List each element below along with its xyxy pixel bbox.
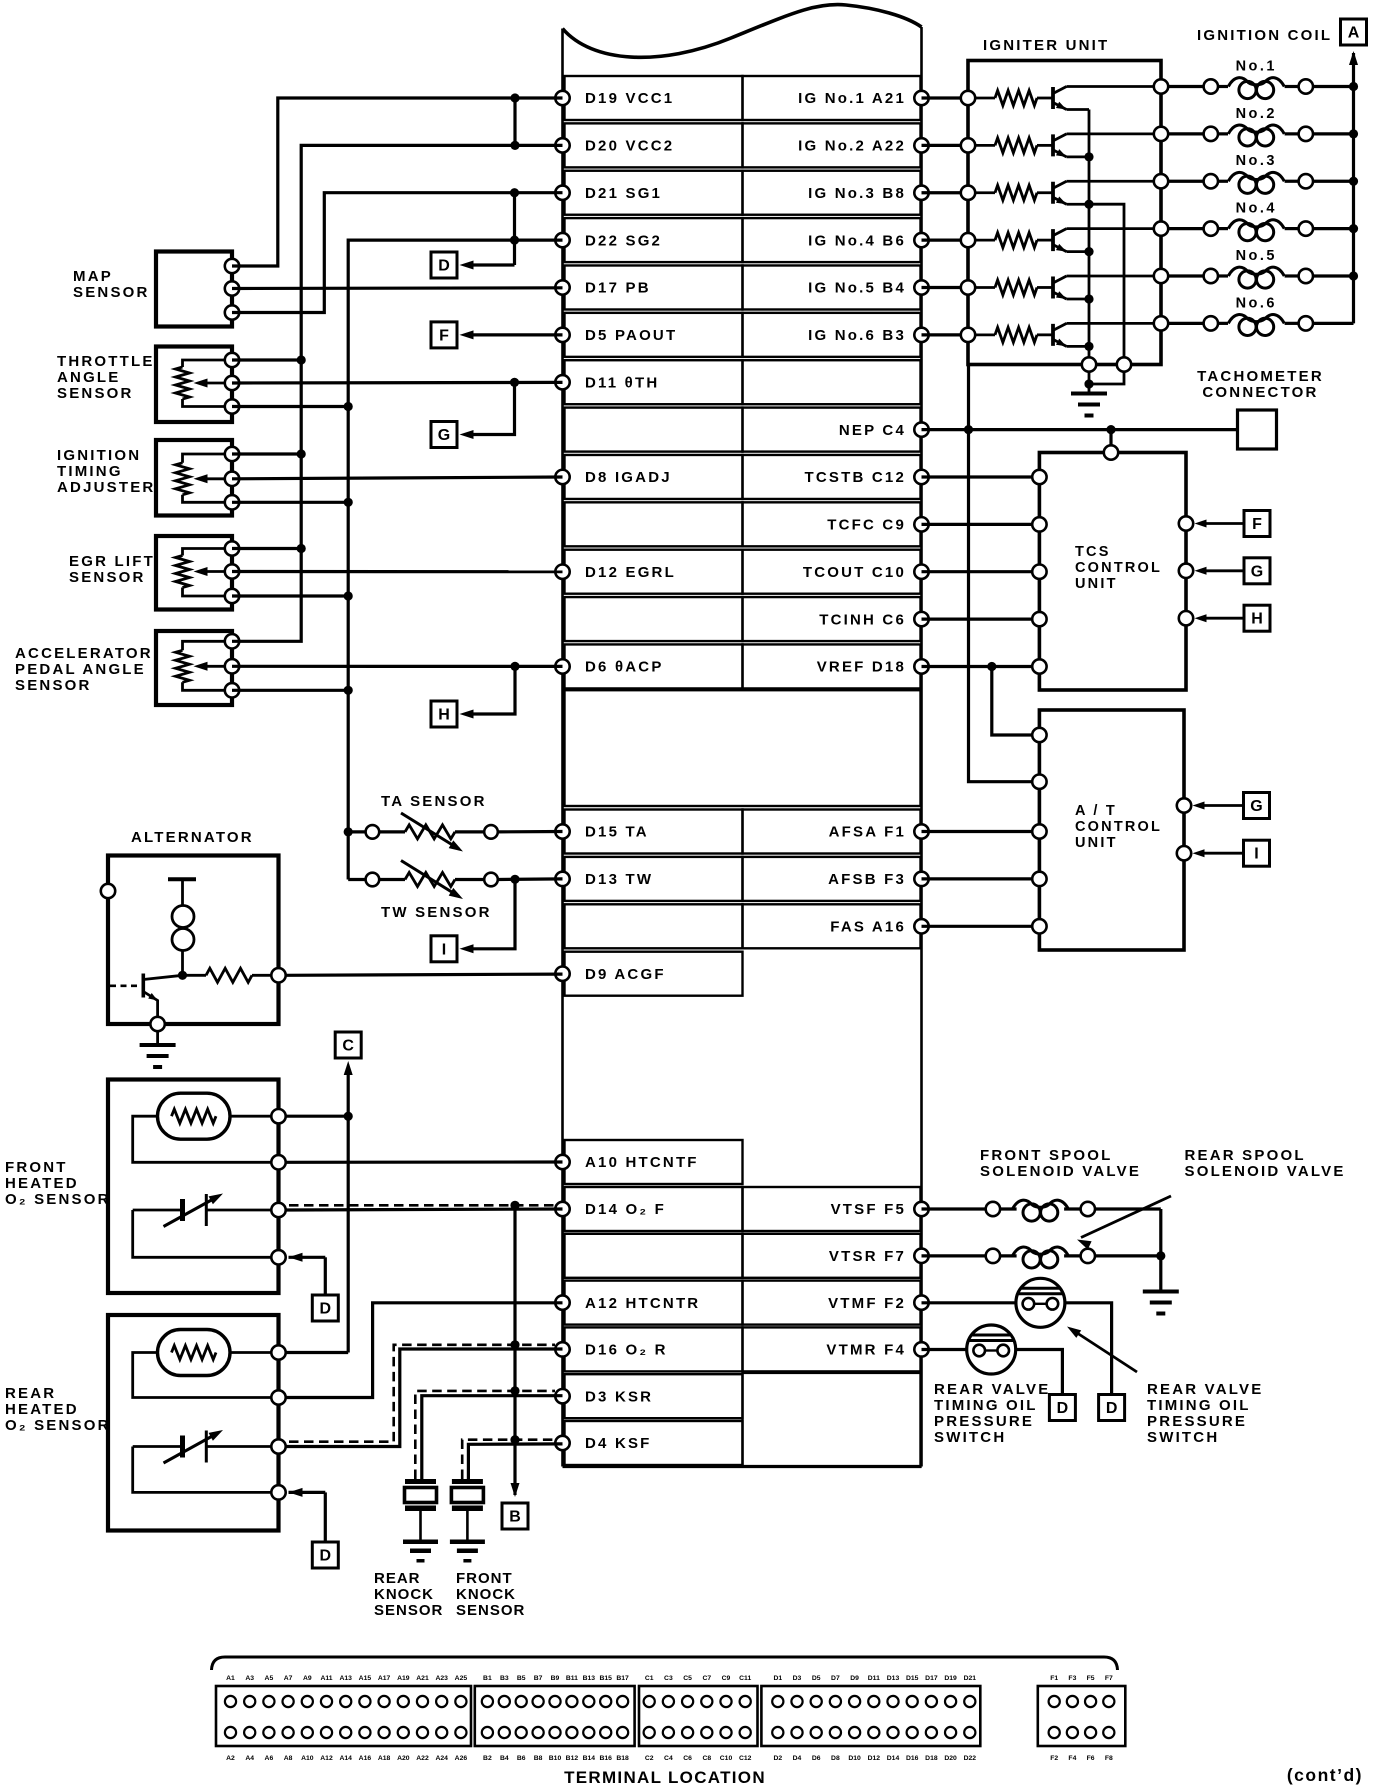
svg-text:TW SENSOR: TW SENSOR	[381, 904, 492, 921]
rear heated O2 sensor box (heater + cell)	[108, 1315, 279, 1531]
svg-text:A26: A26	[455, 1755, 468, 1762]
wire EGR pin1 stub	[232, 547, 301, 550]
terminal connector C	[639, 1686, 758, 1746]
svg-text:REAR: REAR	[374, 1570, 421, 1587]
wire TCINH C6 to TCS	[922, 617, 1033, 620]
svg-text:B8: B8	[534, 1755, 543, 1762]
svg-text:PRESSURE: PRESSURE	[1147, 1413, 1247, 1430]
svg-text:VTMR F4: VTMR F4	[826, 1342, 906, 1359]
wire A12 HTCNTR to rear heater pin2	[286, 1303, 563, 1398]
svg-text:F: F	[1252, 516, 1262, 533]
svg-text:A6: A6	[265, 1755, 274, 1762]
svg-text:No.2: No.2	[1236, 106, 1277, 122]
svg-text:ADJUSTER: ADJUSTER	[57, 479, 155, 496]
svg-text:REAR VALVE: REAR VALVE	[934, 1381, 1050, 1398]
igniter emitter bus	[1088, 110, 1091, 365]
svg-text:IGNITION: IGNITION	[57, 447, 141, 464]
igniter ground pins	[1082, 357, 1096, 371]
svg-text:D10: D10	[848, 1755, 861, 1762]
svg-text:IG No.3 B8: IG No.3 B8	[808, 185, 906, 202]
front spool solenoid valve coil (VTSF F5)	[922, 1207, 986, 1210]
svg-text:D21 SG1: D21 SG1	[585, 185, 662, 202]
ECU right blank cell bottom	[743, 1373, 921, 1467]
wire FAS A16 to A/T	[922, 925, 1033, 928]
svg-text:UNIT: UNIT	[1075, 576, 1118, 592]
svg-text:B10: B10	[549, 1755, 562, 1762]
alternator transistor Q	[142, 974, 146, 998]
svg-text:CONNECTOR: CONNECTOR	[1202, 384, 1318, 401]
svg-text:D17 PB: D17 PB	[585, 280, 651, 297]
svg-text:D4 KSF: D4 KSF	[585, 1435, 652, 1452]
svg-text:A19: A19	[397, 1675, 410, 1682]
svg-text:A / T: A / T	[1075, 803, 1117, 819]
svg-text:A21: A21	[416, 1675, 429, 1682]
svg-text:A10: A10	[301, 1755, 314, 1762]
igniter input pin 3	[961, 186, 975, 200]
svg-text:D21: D21	[964, 1675, 977, 1682]
svg-text:F4: F4	[1068, 1755, 1076, 1762]
svg-text:D: D	[1106, 1400, 1118, 1417]
svg-text:C1: C1	[645, 1675, 654, 1682]
svg-text:IG No.5 B4: IG No.5 B4	[808, 280, 906, 297]
wire D20 VCC2 bus to sensors	[232, 145, 563, 641]
svg-text:A18: A18	[378, 1755, 391, 1762]
svg-text:D9 ACGF: D9 ACGF	[585, 966, 666, 983]
svg-text:F5: F5	[1087, 1675, 1095, 1682]
svg-text:TCINH C6: TCINH C6	[819, 611, 906, 628]
connector D (rear O2)	[312, 1542, 338, 1568]
svg-text:PEDAL ANGLE: PEDAL ANGLE	[15, 661, 146, 678]
igniter collector wire 4	[1067, 227, 1162, 230]
svg-text:SENSOR: SENSOR	[69, 569, 146, 586]
svg-text:SOLENOID VALVE: SOLENOID VALVE	[1185, 1163, 1346, 1180]
wire NEP branch to TCS top pin	[1109, 430, 1112, 446]
svg-text:No.4: No.4	[1236, 201, 1277, 217]
TCS top pin	[1104, 445, 1118, 459]
svg-text:FAS A16: FAS A16	[830, 919, 906, 936]
igniter collector wire 5	[1067, 275, 1162, 278]
svg-text:ANGLE: ANGLE	[57, 369, 121, 386]
svg-text:H: H	[1251, 611, 1263, 628]
igniter collector wire 3	[1067, 180, 1162, 183]
TCS left pins	[1032, 470, 1046, 484]
connector I	[431, 936, 457, 962]
svg-text:D1: D1	[773, 1675, 782, 1682]
svg-text:D12 EGRL: D12 EGRL	[585, 564, 676, 581]
svg-text:B13: B13	[583, 1675, 596, 1682]
svg-text:F8: F8	[1105, 1755, 1113, 1762]
wire front O2 signal to D14 (shielded)	[286, 1209, 563, 1210]
ground (alternator)	[140, 1043, 176, 1047]
A/T left pins	[1032, 728, 1046, 742]
annotation arrow rear spool valve	[1081, 1196, 1171, 1238]
wire EGR wiper to D12 EGRL	[232, 570, 563, 573]
alternator resistor R	[178, 971, 187, 980]
svg-text:B9: B9	[551, 1675, 560, 1682]
svg-text:D6: D6	[812, 1755, 821, 1762]
svg-text:C12: C12	[739, 1755, 752, 1762]
ECU pin cell grid - top group	[565, 76, 743, 120]
svg-text:IG No.2 A22: IG No.2 A22	[798, 138, 906, 155]
alternator box	[108, 856, 279, 1025]
svg-text:D20: D20	[944, 1755, 957, 1762]
ignition coil No.2	[1168, 132, 1204, 135]
throttle angle sensor (potentiometer)	[156, 347, 232, 423]
TCS right pins to F G H	[1179, 516, 1193, 530]
svg-text:SENSOR: SENSOR	[374, 1602, 443, 1619]
ECU pin cell grid - bottom group	[565, 1140, 743, 1184]
svg-text:B5: B5	[517, 1675, 526, 1682]
connector H (TCS)	[1244, 605, 1270, 631]
svg-text:D19 VCC1: D19 VCC1	[585, 90, 674, 107]
svg-text:A13: A13	[339, 1675, 352, 1682]
svg-text:No.1: No.1	[1236, 59, 1277, 75]
svg-text:D11 θTH: D11 θTH	[585, 374, 659, 391]
connector D (switch 1)	[1099, 1395, 1125, 1421]
svg-text:D13: D13	[887, 1675, 900, 1682]
ECU pin cell grid - middle group	[565, 810, 743, 854]
igniter resistor R3	[975, 191, 995, 194]
svg-text:TACHOMETER: TACHOMETER	[1197, 368, 1324, 385]
svg-text:D6 θACP: D6 θACP	[585, 659, 664, 676]
svg-text:D19: D19	[944, 1675, 957, 1682]
svg-text:F2: F2	[1050, 1755, 1058, 1762]
ignition timing adjuster (potentiometer)	[156, 440, 232, 516]
svg-text:UNIT: UNIT	[1075, 835, 1118, 851]
wire VTMR F4 to pressure switch	[922, 1348, 967, 1351]
svg-text:PRESSURE: PRESSURE	[934, 1413, 1034, 1430]
igniter input pin 4	[961, 233, 975, 247]
svg-text:FRONT: FRONT	[5, 1159, 68, 1176]
svg-text:HEATED: HEATED	[5, 1401, 79, 1418]
rear valve timing oil pressure switch 2	[967, 1325, 1016, 1374]
igniter resistor R4	[975, 239, 995, 242]
svg-text:A24: A24	[435, 1755, 448, 1762]
svg-text:G: G	[1250, 798, 1262, 815]
svg-text:D15 TA: D15 TA	[585, 824, 649, 841]
connector D (front O2)	[312, 1295, 338, 1321]
svg-text:A12 HTCNTR: A12 HTCNTR	[585, 1295, 700, 1312]
wire VTMF F2 to pressure switch	[922, 1301, 1016, 1304]
svg-text:B7: B7	[534, 1675, 543, 1682]
svg-text:F1: F1	[1050, 1675, 1058, 1682]
svg-text:IG No.6 B3: IG No.6 B3	[808, 327, 906, 344]
svg-text:B15: B15	[599, 1675, 612, 1682]
svg-text:AFSA F1: AFSA F1	[829, 824, 906, 841]
ignition coil No.6	[1168, 322, 1204, 325]
connector F (TCS)	[1244, 511, 1270, 537]
connector A	[1341, 19, 1367, 45]
svg-text:D14 O₂ F: D14 O₂ F	[585, 1201, 666, 1218]
svg-text:TIMING OIL: TIMING OIL	[934, 1397, 1038, 1414]
svg-text:ALTERNATOR: ALTERNATOR	[131, 829, 254, 846]
svg-text:D8: D8	[831, 1755, 840, 1762]
svg-text:EGR LIFT: EGR LIFT	[69, 553, 155, 570]
svg-text:I: I	[1254, 846, 1258, 863]
alternator ground pin	[150, 1017, 164, 1031]
svg-text:D4: D4	[793, 1755, 802, 1762]
svg-text:D16 O₂ R: D16 O₂ R	[585, 1342, 668, 1359]
svg-text:FRONT SPOOL: FRONT SPOOL	[980, 1147, 1113, 1164]
wire front O2 ground to connector D	[289, 1253, 303, 1262]
svg-text:D8 IGADJ: D8 IGADJ	[585, 469, 672, 486]
svg-text:A8: A8	[284, 1755, 293, 1762]
svg-text:A23: A23	[435, 1675, 448, 1682]
ignition coil No.1	[1168, 85, 1204, 88]
wire IG No.6 to igniter	[922, 333, 969, 336]
svg-text:D14: D14	[887, 1755, 900, 1762]
svg-text:VTSF F5: VTSF F5	[831, 1201, 906, 1218]
igniter emitter wire 2	[1067, 155, 1090, 158]
svg-text:D3: D3	[793, 1675, 802, 1682]
igniter input pin 6	[961, 328, 975, 342]
connector D (sensor ground)	[431, 252, 457, 278]
svg-text:TIMING: TIMING	[57, 463, 123, 480]
svg-text:AFSB F3: AFSB F3	[828, 871, 906, 888]
svg-text:A5: A5	[265, 1675, 274, 1682]
svg-text:TERMINAL LOCATION: TERMINAL LOCATION	[564, 1768, 766, 1787]
svg-text:SOLENOID VALVE: SOLENOID VALVE	[980, 1163, 1141, 1180]
svg-text:C2: C2	[645, 1755, 654, 1762]
igniter resistor R2	[975, 144, 995, 147]
igniter resistor R6	[975, 333, 995, 336]
svg-text:C7: C7	[702, 1675, 711, 1682]
svg-text:D22 SG2: D22 SG2	[585, 232, 662, 249]
junction VCC1-VCC2 link	[513, 98, 516, 145]
svg-text:I: I	[442, 941, 446, 958]
svg-text:D17: D17	[925, 1675, 938, 1682]
svg-text:O₂ SENSOR: O₂ SENSOR	[5, 1191, 111, 1208]
wire throttle pin3 stub	[232, 405, 348, 408]
svg-text:B2: B2	[483, 1755, 492, 1762]
wire VREF D18 to TCS	[922, 665, 1033, 668]
wire AFSB F3 to A/T	[922, 877, 1033, 880]
ECU right pins	[914, 91, 928, 105]
svg-text:IGNITER UNIT: IGNITER UNIT	[983, 37, 1109, 54]
igniter emitter wire 6	[1067, 345, 1090, 348]
connector B	[502, 1503, 528, 1529]
svg-text:IG No.4 B6: IG No.4 B6	[808, 232, 906, 249]
svg-text:REAR VALVE: REAR VALVE	[1147, 1381, 1263, 1398]
igniter resistor R5	[975, 286, 995, 289]
igniter transistor Q3	[1037, 191, 1053, 194]
ignition coil No.5	[1168, 274, 1204, 277]
svg-text:MAP: MAP	[73, 268, 113, 285]
terminal connector D	[761, 1686, 980, 1746]
svg-text:SWITCH: SWITCH	[934, 1429, 1006, 1446]
wire NEP C4 to tachometer connector	[922, 428, 1238, 431]
svg-text:A16: A16	[359, 1755, 372, 1762]
svg-text:C8: C8	[702, 1755, 711, 1762]
ground (igniter)	[1071, 392, 1107, 396]
EGR lift sensor (potentiometer)	[156, 536, 232, 610]
junction SG1-SG2 link and branch to D	[513, 193, 516, 265]
svg-text:F3: F3	[1068, 1675, 1076, 1682]
svg-text:D15: D15	[906, 1675, 919, 1682]
igniter input pin 2	[961, 138, 975, 152]
wire adjuster pin3 stub	[232, 501, 348, 504]
svg-text:D: D	[1057, 1400, 1069, 1417]
connector I (A/T)	[1244, 840, 1270, 866]
igniter emitter wire 5	[1067, 298, 1090, 301]
wire IG No.1 to igniter	[922, 96, 969, 99]
svg-text:IG No.1 A21: IG No.1 A21	[798, 90, 906, 107]
annotation arrow pressure switch	[1071, 1329, 1137, 1372]
wire throttle wiper to D11 thTH	[232, 381, 563, 385]
svg-text:IGNITION COIL: IGNITION COIL	[1197, 27, 1332, 44]
svg-text:A14: A14	[339, 1755, 352, 1762]
svg-text:C9: C9	[722, 1675, 731, 1682]
svg-text:TIMING OIL: TIMING OIL	[1147, 1397, 1251, 1414]
svg-text:VTSR F7: VTSR F7	[829, 1248, 906, 1265]
terminal location bracket	[212, 1657, 1118, 1670]
svg-text:D: D	[320, 1301, 332, 1318]
svg-text:REAR SPOOL: REAR SPOOL	[1185, 1147, 1306, 1164]
svg-text:C3: C3	[664, 1675, 673, 1682]
wire TCSTB C12 to TCS	[922, 475, 1033, 478]
svg-text:ACCELERATOR: ACCELERATOR	[15, 645, 153, 662]
svg-text:B6: B6	[517, 1755, 526, 1762]
svg-text:D18: D18	[925, 1755, 938, 1762]
svg-text:(cont’d): (cont’d)	[1287, 1765, 1363, 1785]
terminal connector F	[1038, 1686, 1126, 1746]
svg-text:CONTROL: CONTROL	[1075, 560, 1162, 576]
branch D6 wire to connector H	[472, 666, 515, 714]
svg-text:A25: A25	[455, 1675, 468, 1682]
wire accelerator pin3 stub	[232, 689, 348, 692]
svg-text:HEATED: HEATED	[5, 1175, 79, 1192]
connector G (TCS)	[1244, 558, 1270, 584]
svg-text:SENSOR: SENSOR	[57, 385, 134, 402]
svg-text:VTMF F2: VTMF F2	[828, 1295, 906, 1312]
igniter emitter wire 1	[1067, 108, 1090, 111]
svg-text:A7: A7	[284, 1675, 293, 1682]
ECU left pins	[555, 91, 569, 105]
igniter output pin 5	[1154, 269, 1168, 283]
svg-text:A22: A22	[416, 1755, 429, 1762]
svg-text:A2: A2	[226, 1755, 235, 1762]
rear spool solenoid valve coil (VTSR F7)	[922, 1254, 986, 1257]
front knock sensor piezo	[452, 1479, 483, 1484]
svg-text:D13 TW: D13 TW	[585, 871, 653, 888]
wire rear O2 signal to D16 (shielded)	[286, 1349, 563, 1447]
svg-text:REAR: REAR	[5, 1385, 56, 1402]
svg-text:A1: A1	[226, 1675, 235, 1682]
svg-text:VREF D18: VREF D18	[817, 659, 906, 676]
svg-text:C: C	[342, 1038, 354, 1055]
svg-text:D5 PAOUT: D5 PAOUT	[585, 327, 677, 344]
net A bus with up arrow	[1349, 51, 1358, 65]
igniter output pin 1	[1154, 79, 1168, 93]
igniter emitter branch to second ground pin	[1089, 204, 1124, 364]
wire AFSA F1 to A/T	[922, 830, 1033, 833]
wire switch 2 to connector D	[1016, 1350, 1063, 1395]
ground (spool valves)	[1143, 1290, 1179, 1294]
svg-text:NEP C4: NEP C4	[839, 422, 906, 439]
wire IG No.3 to igniter	[922, 191, 969, 194]
terminal connector A	[216, 1686, 471, 1746]
tachometer connector box	[1238, 410, 1277, 449]
wire adjuster wiper to D8 IGADJ	[232, 477, 563, 479]
igniter ground wires	[1088, 372, 1091, 394]
svg-text:D2: D2	[773, 1755, 782, 1762]
ECU connector block outline (wavy break at top)	[563, 5, 922, 58]
wire rear O2 ground to connector D	[289, 1488, 303, 1497]
igniter transistor Q1	[1037, 97, 1053, 100]
ignition coil No.4	[1168, 227, 1204, 230]
svg-text:No.5: No.5	[1236, 248, 1277, 264]
svg-text:D9: D9	[850, 1675, 859, 1682]
svg-text:A20: A20	[397, 1755, 410, 1762]
svg-text:TCFC C9: TCFC C9	[827, 517, 906, 534]
net C: heater power to connector C	[286, 1115, 349, 1118]
igniter output pin 3	[1154, 174, 1168, 188]
svg-text:B3: B3	[500, 1675, 509, 1682]
igniter transistor Q5	[1037, 286, 1053, 289]
svg-text:B18: B18	[616, 1755, 629, 1762]
wire IG No.2 to igniter	[922, 144, 969, 147]
igniter output pin 2	[1154, 127, 1168, 141]
igniter transistor Q6	[1037, 333, 1053, 336]
svg-text:C6: C6	[683, 1755, 692, 1762]
rear knock sensor piezo	[405, 1479, 436, 1484]
alternator pin left	[101, 884, 115, 898]
svg-text:F6: F6	[1087, 1755, 1095, 1762]
svg-text:B17: B17	[616, 1675, 629, 1682]
wire IG No.4 to igniter	[922, 239, 969, 242]
front knock wires to D4 KSF (shielded)	[468, 1444, 562, 1479]
svg-text:B12: B12	[566, 1755, 579, 1762]
ECU blank cell between VREF and AFSA rows	[565, 690, 921, 806]
svg-text:D22: D22	[964, 1755, 977, 1762]
svg-text:D5: D5	[812, 1675, 821, 1682]
svg-text:A11: A11	[320, 1675, 332, 1682]
svg-text:H: H	[438, 707, 450, 724]
TA sensor (thermistor)	[344, 827, 353, 836]
svg-text:A: A	[1348, 25, 1360, 42]
igniter output pin 6	[1154, 316, 1168, 330]
svg-text:B14: B14	[583, 1755, 596, 1762]
rear valve timing oil pressure switch 1	[1016, 1278, 1065, 1327]
igniter unit box	[968, 61, 1161, 365]
svg-text:D11: D11	[868, 1675, 880, 1682]
igniter input pin 5	[961, 280, 975, 294]
igniter emitter wire 4	[1067, 250, 1090, 253]
svg-text:F7: F7	[1105, 1675, 1113, 1682]
wire IG No.5 to igniter	[922, 286, 969, 289]
svg-text:TCSTB C12: TCSTB C12	[805, 469, 906, 486]
wire throttle pin1 stub	[232, 358, 301, 361]
svg-text:SENSOR: SENSOR	[73, 284, 150, 301]
igniter resistor R1	[975, 97, 995, 100]
wire switch 1 to connector D	[1065, 1303, 1112, 1395]
svg-text:D3 KSR: D3 KSR	[585, 1388, 653, 1405]
svg-text:D: D	[438, 258, 450, 275]
wire NEP branch down to A/T control unit	[969, 430, 1033, 782]
wire igniter to NEP junction	[967, 365, 970, 430]
igniter transistor Q2	[1037, 144, 1053, 147]
igniter collector wire 6	[1067, 322, 1162, 325]
svg-text:B1: B1	[483, 1675, 492, 1682]
svg-text:A10 HTCNTF: A10 HTCNTF	[585, 1154, 699, 1171]
alternator field coil L	[168, 877, 196, 881]
wire adjuster pin1 stub	[232, 452, 301, 455]
svg-text:C10: C10	[720, 1755, 733, 1762]
connector C	[335, 1032, 361, 1058]
wire accelerator wiper to D6 thACP	[232, 665, 563, 668]
svg-text:KNOCK: KNOCK	[374, 1586, 434, 1603]
svg-text:D16: D16	[906, 1755, 919, 1762]
